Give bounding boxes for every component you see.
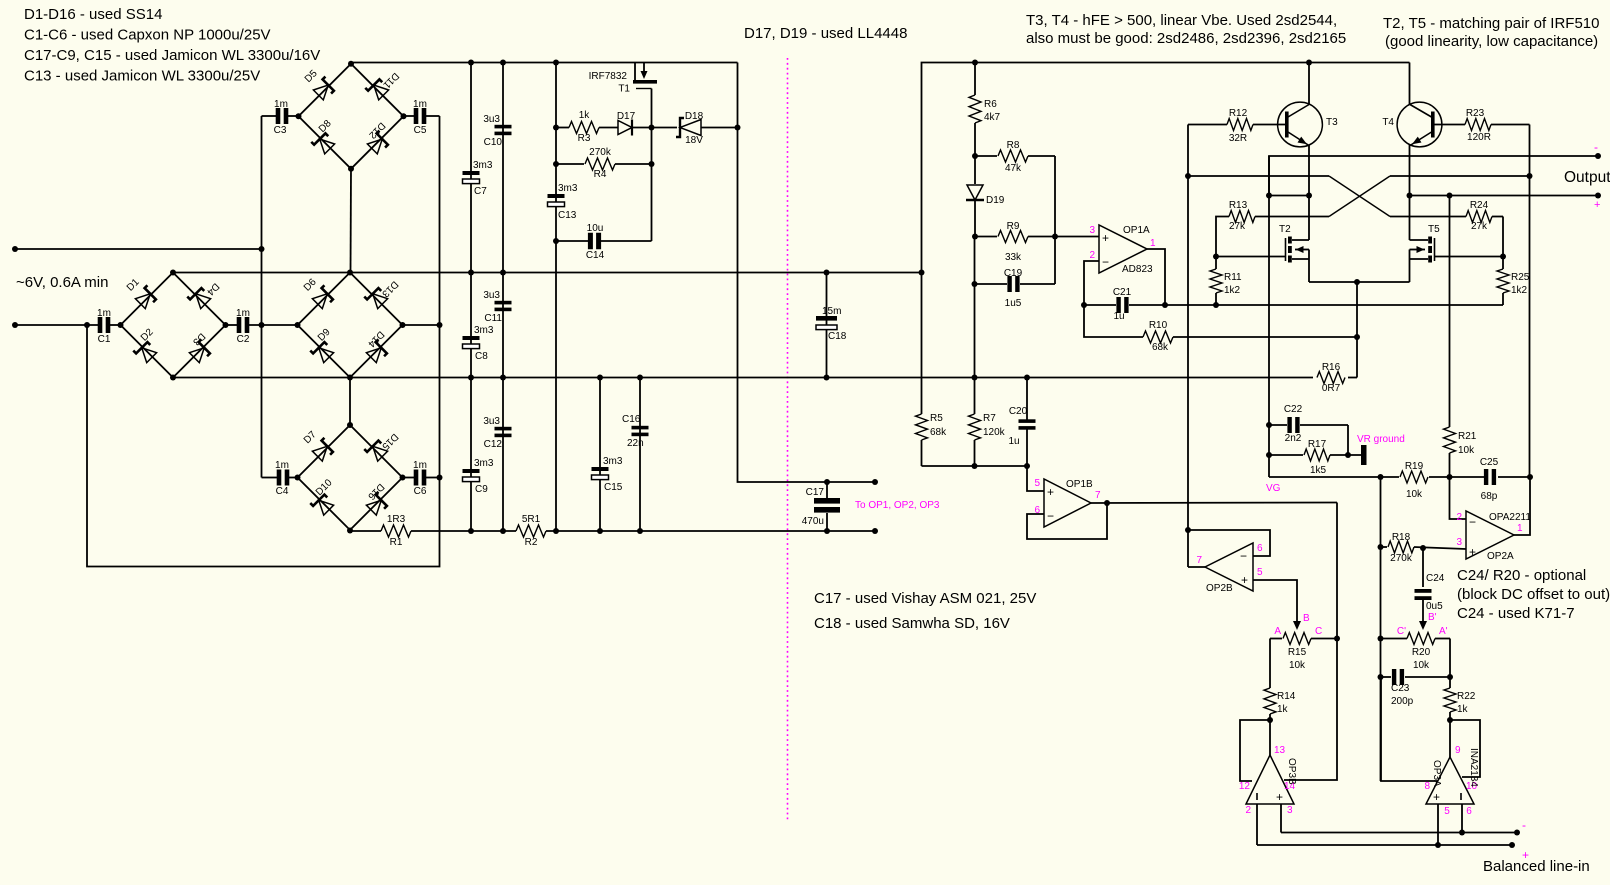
diode D13 bbox=[364, 285, 388, 309]
svg-text:3m3: 3m3 bbox=[474, 458, 494, 469]
capacitor C2 bbox=[226, 324, 238, 326]
node t1s-127 bbox=[649, 125, 655, 131]
svg-text:Balanced line-in: Balanced line-in bbox=[1483, 858, 1590, 875]
transistor T5 mosfet bbox=[1434, 238, 1436, 261]
resistor R4 bbox=[556, 163, 584, 165]
svg-text:R24: R24 bbox=[1470, 200, 1489, 211]
wire balanced plus rail bbox=[1257, 844, 1512, 846]
wire OP2B feedback bbox=[1188, 530, 1270, 556]
op-amp OP1B bbox=[1027, 466, 1044, 491]
svg-text:C2: C2 bbox=[237, 334, 250, 345]
svg-text:R20: R20 bbox=[1412, 647, 1431, 658]
resistor R14 bbox=[1269, 639, 1271, 689]
node c503-top bbox=[500, 60, 506, 66]
resistor R2 bbox=[516, 525, 546, 537]
diode D5 bbox=[313, 77, 337, 101]
op-amp OP3A bbox=[1426, 757, 1474, 804]
svg-text:3: 3 bbox=[1089, 225, 1095, 236]
wire rail V2 riser bbox=[922, 63, 1410, 273]
capacitor C25 bbox=[1484, 469, 1488, 485]
resistor R19 bbox=[1400, 471, 1428, 483]
svg-text:OP1B: OP1B bbox=[1066, 479, 1093, 490]
svg-text:C11: C11 bbox=[484, 313, 502, 324]
bridge wires D1-D3 bbox=[121, 273, 226, 378]
svg-text:D19: D19 bbox=[986, 195, 1005, 206]
svg-text:OP1A: OP1A bbox=[1123, 225, 1150, 236]
node d19-bottom bbox=[972, 234, 978, 240]
svg-text:+: + bbox=[1276, 790, 1283, 804]
svg-text:AD823: AD823 bbox=[1122, 264, 1153, 275]
resistor R6 bbox=[974, 63, 976, 96]
wire column C10/C11/C12 bbox=[502, 63, 504, 532]
wire bridge1-bottom to rail bbox=[350, 169, 353, 273]
wire top rail V1 bbox=[351, 62, 738, 64]
svg-text:3u3: 3u3 bbox=[483, 416, 500, 427]
svg-text:22n: 22n bbox=[627, 438, 644, 449]
op-amp OP2B bbox=[1205, 543, 1253, 591]
svg-text:OP2A: OP2A bbox=[1487, 551, 1514, 562]
wire trunk 1188 bbox=[1187, 125, 1189, 568]
terminal AC1 bbox=[12, 246, 18, 252]
node x1450-720 bbox=[1447, 717, 1453, 723]
diode D15 bbox=[364, 438, 388, 462]
wire OP3A pin8 bbox=[1381, 677, 1438, 781]
svg-text:T5: T5 bbox=[1428, 224, 1440, 235]
wire T3 emitter trunk bbox=[1308, 145, 1310, 240]
capacitor C3 bbox=[262, 115, 278, 117]
svg-text:2: 2 bbox=[1456, 512, 1462, 523]
svg-text:200p: 200p bbox=[1391, 696, 1414, 707]
svg-text:0u5: 0u5 bbox=[1426, 601, 1443, 612]
resistor R1 bbox=[381, 525, 411, 537]
svg-text:OPA2211: OPA2211 bbox=[1489, 512, 1531, 523]
svg-text:5: 5 bbox=[1444, 806, 1450, 817]
svg-text:T4: T4 bbox=[1382, 117, 1394, 128]
diode D2 bbox=[133, 339, 157, 363]
node op3a-pin6 bbox=[1459, 830, 1465, 836]
wire OP2B pin5 to R15 bbox=[1253, 580, 1297, 621]
svg-text:3: 3 bbox=[1287, 805, 1293, 816]
diode D17 bbox=[618, 120, 632, 136]
wire cross diagonal A bbox=[1329, 176, 1390, 217]
resistor R16 bbox=[1348, 377, 1357, 379]
wire T3 collector bbox=[1308, 63, 1310, 105]
svg-text:1k5: 1k5 bbox=[1310, 465, 1327, 476]
svg-text:5R1: 5R1 bbox=[522, 514, 541, 525]
svg-text:+: + bbox=[1047, 485, 1054, 499]
svg-text:1k2: 1k2 bbox=[1511, 285, 1528, 296]
node t2-gate-junction bbox=[1213, 254, 1219, 260]
node r21-top bbox=[1447, 193, 1453, 199]
wire column C16 bbox=[639, 378, 641, 532]
node x1381-677 bbox=[1378, 674, 1384, 680]
node c600-531 bbox=[597, 528, 603, 534]
wire column C7/C8/C9 bbox=[470, 63, 472, 532]
svg-text:OP3A: OP3A bbox=[1431, 760, 1442, 787]
wire link t4e bbox=[1410, 195, 1450, 197]
svg-text:−: − bbox=[1047, 509, 1054, 523]
resistor R22 bbox=[1449, 677, 1451, 688]
capacitor C20 bbox=[1026, 378, 1028, 422]
svg-text:3m3: 3m3 bbox=[474, 325, 494, 336]
diode D14 bbox=[366, 339, 390, 363]
diode D4 bbox=[187, 285, 211, 309]
node r11-bottom bbox=[1213, 302, 1219, 308]
svg-text:D17, D19 - used LL4448: D17, D19 - used LL4448 bbox=[744, 25, 907, 42]
node bridge2 bottom bbox=[170, 375, 176, 381]
svg-text:T3, T4 - hFE > 500, linear Vb: T3, T4 - hFE > 500, linear Vbe. Used 2sd… bbox=[1026, 12, 1337, 29]
terminal to-op-supply bbox=[872, 479, 878, 485]
node bridge4 right bbox=[400, 475, 406, 481]
node c640-377 bbox=[637, 375, 643, 381]
capacitor C1 bbox=[98, 317, 103, 333]
svg-text:R12: R12 bbox=[1229, 108, 1248, 119]
diode D9 bbox=[310, 339, 334, 363]
svg-text:6: 6 bbox=[1466, 806, 1472, 817]
svg-text:C1-C6 - used Capxon NP 1000u/2: C1-C6 - used Capxon NP 1000u/25V bbox=[24, 27, 271, 44]
resistor R9 bbox=[975, 236, 997, 238]
svg-text:12: 12 bbox=[1239, 781, 1251, 792]
node r10-right bbox=[1354, 334, 1360, 340]
svg-text:R8: R8 bbox=[1007, 140, 1020, 151]
wire OP3A feedback loop bbox=[1450, 720, 1480, 777]
svg-text:1k: 1k bbox=[579, 110, 591, 121]
node op1a-fb-left bbox=[1081, 302, 1087, 308]
diode D8 bbox=[311, 131, 335, 155]
node c471-531 bbox=[468, 528, 474, 534]
terminal bottom-rail-end bbox=[872, 528, 878, 534]
node T3 collector top bbox=[1306, 60, 1312, 66]
node bridge2 top bbox=[170, 270, 176, 276]
svg-text:C13: C13 bbox=[558, 210, 577, 221]
node c556-531 bbox=[553, 528, 559, 534]
node r17-right bbox=[1345, 452, 1351, 458]
wire cross rail 176 bbox=[1188, 175, 1329, 177]
capacitor C19 bbox=[975, 283, 1008, 285]
node op1b-out bbox=[1104, 500, 1110, 506]
node bridge1 right bbox=[401, 113, 407, 119]
node bridge1 bottom bbox=[348, 166, 354, 172]
node bridge4 bottom bbox=[347, 528, 353, 534]
svg-text:27k: 27k bbox=[1229, 221, 1246, 232]
wire R8-right down bbox=[1054, 156, 1056, 284]
node t4e-195 bbox=[1407, 193, 1413, 199]
capacitor C18 bbox=[816, 316, 837, 321]
wire source tail bbox=[1309, 281, 1410, 283]
wire OP3A pin6 stub bbox=[1461, 804, 1463, 833]
resistor R25 bbox=[1502, 257, 1504, 270]
node c556-top bbox=[553, 60, 559, 66]
wire OP2B output bbox=[1188, 566, 1205, 568]
capacitor C15 bbox=[592, 467, 609, 471]
svg-text:R9: R9 bbox=[1007, 221, 1020, 232]
wire left return loop bbox=[87, 116, 440, 567]
wire bridge3-right to column bbox=[403, 324, 440, 326]
bridge wires D7-D16 bbox=[298, 425, 403, 530]
svg-text:C': C' bbox=[1397, 626, 1406, 637]
svg-text:R22: R22 bbox=[1457, 691, 1476, 702]
svg-text:+: + bbox=[1241, 573, 1248, 587]
svg-text:C8: C8 bbox=[475, 351, 488, 362]
svg-text:A': A' bbox=[1439, 626, 1448, 637]
wire R20-right down bbox=[1449, 639, 1451, 678]
svg-text:68k: 68k bbox=[930, 427, 947, 438]
node c556-127 bbox=[553, 125, 559, 131]
svg-text:10k: 10k bbox=[1406, 489, 1423, 500]
svg-text:10k: 10k bbox=[1413, 660, 1430, 671]
svg-text:18V: 18V bbox=[685, 135, 703, 146]
node bridge3 left bbox=[295, 322, 301, 328]
diode D10 bbox=[310, 492, 334, 516]
svg-text:C1: C1 bbox=[98, 334, 111, 345]
svg-text:1m: 1m bbox=[97, 308, 111, 319]
wire OP3A pin5 stub bbox=[1437, 804, 1439, 845]
svg-text:R5: R5 bbox=[930, 413, 943, 424]
node bridge2 right bbox=[223, 322, 229, 328]
svg-text:C25: C25 bbox=[1480, 457, 1499, 468]
node r6-bottom bbox=[972, 153, 978, 159]
wire OP2A output bbox=[1514, 477, 1530, 535]
wire V1 trunk down (737) bbox=[738, 63, 876, 483]
svg-text:1R3: 1R3 bbox=[387, 514, 406, 525]
svg-text:2: 2 bbox=[1245, 805, 1251, 816]
node c503-531 bbox=[500, 528, 506, 534]
separator dotted line bbox=[787, 58, 789, 820]
svg-text:C24/ R20 - optional: C24/ R20 - optional bbox=[1457, 567, 1586, 584]
wire rail bottom (531) bbox=[350, 530, 381, 532]
wire OP3B pin12 loop bbox=[1240, 720, 1270, 781]
svg-text:R18: R18 bbox=[1392, 532, 1411, 543]
capacitor C23 bbox=[1381, 676, 1392, 678]
node c20-top bbox=[1024, 375, 1030, 381]
svg-text:470u: 470u bbox=[802, 516, 824, 527]
svg-text:(block DC offset to out): (block DC offset to out) bbox=[1457, 586, 1610, 603]
svg-text:7: 7 bbox=[1095, 490, 1101, 501]
wire T1 source bbox=[651, 89, 653, 242]
terminal balanced-plus bbox=[1509, 842, 1515, 848]
svg-text:33k: 33k bbox=[1005, 252, 1022, 263]
svg-text:1m: 1m bbox=[274, 99, 288, 110]
svg-text:32R: 32R bbox=[1229, 133, 1247, 144]
svg-text:270k: 270k bbox=[1390, 553, 1413, 564]
capacitor C16 bbox=[632, 426, 649, 430]
node bridge3 bottom bbox=[347, 375, 353, 381]
svg-text:1m: 1m bbox=[275, 460, 289, 471]
svg-text:C18 - used Samwha SD, 16V: C18 - used Samwha SD, 16V bbox=[814, 615, 1010, 632]
node c19-left bbox=[972, 281, 978, 287]
node c503-272 bbox=[500, 270, 506, 276]
svg-text:(good linearity, low capacitan: (good linearity, low capacitance) bbox=[1385, 33, 1598, 50]
svg-text:6: 6 bbox=[1257, 543, 1263, 554]
node column-top-wire bbox=[259, 246, 265, 252]
node column-325 bbox=[437, 322, 443, 328]
wire to R24 bbox=[1390, 216, 1466, 218]
diode D16 bbox=[366, 492, 390, 516]
terminal balanced-minus bbox=[1514, 830, 1520, 836]
resistor R24 bbox=[1466, 211, 1492, 223]
svg-text:R17: R17 bbox=[1308, 439, 1327, 450]
wire T4 emitter trunk bbox=[1409, 145, 1411, 240]
wire C22-right down bbox=[1347, 425, 1349, 455]
svg-text:3: 3 bbox=[1456, 537, 1462, 548]
wire OP3B pin2 bbox=[1256, 804, 1258, 845]
transistor T3 bbox=[1278, 102, 1323, 147]
svg-text:1: 1 bbox=[1517, 523, 1523, 534]
node t5-gate-junction bbox=[1500, 254, 1506, 260]
wire output minus rail bbox=[1269, 156, 1598, 196]
svg-text:5: 5 bbox=[1257, 567, 1263, 578]
svg-text:R10: R10 bbox=[1149, 320, 1168, 331]
svg-text:also must be good: 2sd2486, 2s: also must be good: 2sd2486, 2sd2396, 2sd… bbox=[1026, 30, 1346, 47]
svg-text:R3: R3 bbox=[578, 133, 591, 144]
node x1269-195 bbox=[1266, 193, 1272, 199]
resistor R17 bbox=[1269, 454, 1303, 456]
svg-text:+: + bbox=[1469, 545, 1476, 559]
bridge wires D5-D12 bbox=[299, 64, 404, 169]
op-amp OP2A bbox=[1466, 511, 1514, 559]
wire OP1A pin2 bbox=[1084, 261, 1099, 305]
wire OP1B feedback bbox=[1027, 503, 1107, 539]
svg-text:C17: C17 bbox=[806, 487, 825, 498]
diode D6 bbox=[312, 285, 336, 309]
svg-text:C12: C12 bbox=[484, 439, 503, 450]
resistor R3 bbox=[556, 127, 569, 129]
potentiometer R15 bbox=[1270, 638, 1282, 640]
wire balanced minus rail bbox=[1281, 832, 1517, 834]
ground VR bbox=[1361, 445, 1367, 465]
svg-text:−: − bbox=[1240, 549, 1247, 563]
transistor T1 IRF7832 bbox=[634, 63, 636, 81]
node C17-bottom bbox=[824, 528, 830, 534]
svg-text:C14: C14 bbox=[586, 250, 605, 261]
svg-text:C22: C22 bbox=[1284, 404, 1303, 415]
svg-text:C17-C9, C15 - used Jamicon WL: C17-C9, C15 - used Jamicon WL 3300u/16V bbox=[24, 47, 320, 64]
node x1381-477 bbox=[1378, 474, 1384, 480]
svg-text:+: + bbox=[1522, 848, 1529, 862]
svg-text:10k: 10k bbox=[1289, 660, 1306, 671]
svg-text:R6: R6 bbox=[984, 99, 997, 110]
svg-text:+: + bbox=[1433, 790, 1440, 804]
diode D3 bbox=[189, 339, 213, 363]
capacitor C6 bbox=[403, 477, 415, 479]
wire rail 466 bbox=[922, 465, 1028, 467]
svg-text:27k: 27k bbox=[1471, 221, 1488, 232]
node c25-right bbox=[1527, 474, 1533, 480]
resistor R5 bbox=[921, 273, 923, 415]
resistor R10 bbox=[1084, 305, 1143, 337]
svg-text:1k2: 1k2 bbox=[1224, 285, 1241, 296]
svg-text:OP3B: OP3B bbox=[1286, 758, 1297, 785]
svg-text:C10: C10 bbox=[484, 137, 503, 148]
node bridge3 top bbox=[347, 270, 353, 276]
svg-text:1u: 1u bbox=[1113, 311, 1124, 322]
transistor T2 mosfet bbox=[1285, 238, 1287, 261]
node x1529-176 bbox=[1527, 173, 1533, 179]
wire AC input top bbox=[15, 248, 262, 250]
svg-text:B: B bbox=[1303, 613, 1310, 624]
wire R24 down bbox=[1502, 217, 1504, 257]
svg-text:C3: C3 bbox=[274, 125, 287, 136]
capacitor C8 bbox=[463, 336, 480, 340]
svg-text:1m: 1m bbox=[413, 460, 427, 471]
node AC2-branch bbox=[84, 322, 90, 328]
svg-text:47k: 47k bbox=[1005, 163, 1022, 174]
capacitor C7 bbox=[463, 171, 480, 175]
diode D18 zener bbox=[652, 127, 678, 129]
svg-text:C6: C6 bbox=[414, 486, 427, 497]
svg-text:9: 9 bbox=[1455, 745, 1461, 756]
wire column 1381 bbox=[1380, 477, 1382, 781]
svg-text:-: - bbox=[1522, 818, 1526, 832]
svg-text:R4: R4 bbox=[594, 169, 607, 180]
node bridge1 left bbox=[296, 113, 302, 119]
node trunk-530 bbox=[1185, 527, 1191, 533]
svg-text:68k: 68k bbox=[1152, 342, 1169, 353]
resistor R23 bbox=[1435, 124, 1466, 126]
svg-text:INA2134: INA2134 bbox=[1468, 748, 1479, 787]
svg-text:C24: C24 bbox=[1426, 573, 1445, 584]
node c471-377 bbox=[468, 375, 474, 381]
wire T4 collector bbox=[1409, 63, 1411, 105]
wire output-minus vertical 1269 bbox=[1268, 156, 1270, 477]
svg-text:R16: R16 bbox=[1322, 362, 1341, 373]
wire link t3e bbox=[1269, 195, 1309, 197]
svg-text:8: 8 bbox=[1424, 781, 1430, 792]
capacitor C5 bbox=[404, 115, 415, 117]
svg-text:R19: R19 bbox=[1405, 461, 1424, 472]
svg-text:5: 5 bbox=[1034, 478, 1040, 489]
capacitor C24 bbox=[1422, 548, 1424, 587]
svg-text:270k: 270k bbox=[589, 147, 612, 158]
svg-text:R7: R7 bbox=[983, 413, 996, 424]
svg-text:C: C bbox=[1315, 626, 1322, 637]
capacitor C10 bbox=[495, 125, 512, 129]
capacitor C12 bbox=[495, 427, 512, 431]
svg-text:Output: Output bbox=[1564, 169, 1610, 186]
wire tail down bbox=[1356, 282, 1358, 378]
op-amp OP3B bbox=[1269, 720, 1271, 755]
node trunk-176 bbox=[1185, 173, 1191, 179]
wire AC input bottom bbox=[15, 324, 100, 326]
wire R3/R4/C13 column bbox=[555, 63, 557, 532]
diode D19 bbox=[974, 156, 976, 184]
diode D7 bbox=[312, 438, 336, 462]
node c556-241 bbox=[553, 238, 559, 244]
capacitor C11 bbox=[495, 301, 512, 305]
wire C1-C3-C2-C4 column bbox=[261, 116, 263, 478]
diode D1 bbox=[135, 285, 159, 309]
node R6 top bbox=[972, 60, 978, 66]
svg-text:68p: 68p bbox=[1481, 491, 1498, 502]
capacitor C14 bbox=[556, 240, 588, 242]
svg-text:1k: 1k bbox=[1457, 704, 1469, 715]
wire T2 drain-source verticals bbox=[1308, 239, 1310, 241]
transistor T4 bbox=[1397, 102, 1442, 147]
node r7-top-rail bbox=[972, 375, 978, 381]
node r18-right bbox=[1420, 545, 1426, 551]
svg-text:To OP1, OP2, OP3: To OP1, OP2, OP3 bbox=[855, 500, 940, 511]
node r21-bottom bbox=[1447, 474, 1453, 480]
svg-text:IRF7832: IRF7832 bbox=[589, 71, 628, 82]
svg-text:R25: R25 bbox=[1511, 272, 1530, 283]
node d18-right bbox=[735, 125, 741, 131]
svg-text:R11: R11 bbox=[1224, 272, 1242, 283]
svg-text:C15: C15 bbox=[604, 482, 623, 493]
terminal output-minus bbox=[1595, 153, 1601, 159]
svg-text:3m3: 3m3 bbox=[473, 160, 493, 171]
svg-text:2n2: 2n2 bbox=[1285, 433, 1302, 444]
wire rail V2 (272) bbox=[173, 272, 922, 274]
